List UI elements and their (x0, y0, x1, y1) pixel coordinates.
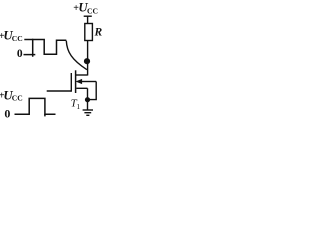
svg-text:0: 0 (4, 107, 10, 121)
leader wire from output waveform to drain node (66, 41, 87, 70)
ground symbol (83, 110, 93, 115)
output waveform +Ucc label (0, 29, 23, 43)
node dot (output node) (84, 58, 90, 64)
output waveform high-level dash (24, 39, 33, 41)
svg-text:1: 1 (76, 102, 80, 111)
drain stub (76, 74, 88, 76)
substrate arrow (81, 81, 97, 83)
supply terminal tick (84, 15, 92, 17)
svg-text:0: 0 (17, 48, 23, 60)
supply +Ucc label (top right) (73, 1, 98, 16)
wire supply to resistor (87, 16, 89, 23)
input waveform +Ucc label (0, 88, 23, 102)
substrate return wire (88, 82, 97, 100)
output waveform zero-level dash (24, 54, 36, 56)
input waveform trace (15, 98, 56, 114)
svg-text:CC: CC (12, 34, 23, 43)
transistor label T1 (71, 97, 81, 111)
transistor T1 channel bar (75, 70, 77, 93)
resistor R (85, 24, 93, 41)
svg-text:CC: CC (12, 94, 23, 103)
wire resistor to drain stub (87, 41, 89, 76)
transistor T1 gate bar (70, 73, 72, 92)
source stub (76, 87, 87, 89)
output waveform trace (33, 40, 67, 57)
svg-text:CC: CC (87, 6, 98, 15)
node dot (source junction) (85, 97, 90, 102)
source wire to ground (87, 88, 89, 110)
svg-text:R: R (94, 26, 103, 38)
gate lead wire (47, 90, 72, 92)
